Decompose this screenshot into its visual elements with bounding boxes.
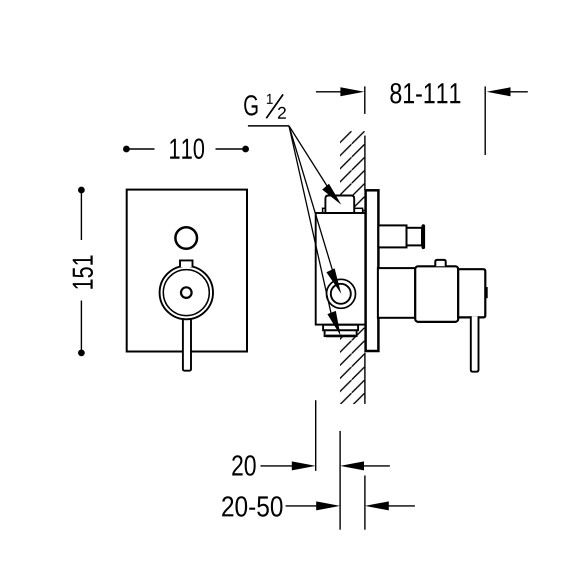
side view: cartridge body (415, 266, 458, 322)
side view: top inlet nut (325, 196, 354, 214)
side view: round side port inner (331, 284, 351, 304)
side view: handle base cap (458, 269, 485, 317)
dimension 20-50 (222, 496, 415, 517)
side view: cartridge top button (435, 260, 445, 266)
side view: upper outlet end cap (421, 226, 425, 247)
side view: neck between plate and cartridge (378, 268, 415, 318)
label G 1/2 (244, 94, 289, 126)
leader arrow to top inlet (322, 184, 341, 205)
extension line at box rear (315, 400, 317, 471)
wall surface line upper (364, 136, 366, 191)
front view: knob outer ring (160, 266, 213, 319)
side view: temperature stop notch (485, 287, 488, 298)
front view: knob top tab (180, 260, 193, 267)
side view: trim plate (366, 190, 379, 351)
front view: diverter button (175, 227, 197, 249)
dimension 151 (73, 187, 93, 357)
side view: round side port outer (327, 279, 356, 308)
wall surface line lower (364, 353, 366, 404)
front view: lever handle (183, 300, 191, 371)
front view: wall plate (127, 190, 247, 352)
front view: knob inner ring (163, 270, 209, 316)
extension line at rough wall surface (339, 431, 341, 530)
front view: knob center dot (181, 287, 192, 298)
leader line to top inlet (289, 126, 330, 191)
side view: embedded valve box (316, 213, 366, 325)
dimension 20 (232, 455, 390, 476)
wall hatched section (340, 131, 365, 404)
leader line to round port (289, 126, 333, 272)
extension line at finished wall surface (364, 476, 366, 530)
label underline (248, 125, 289, 127)
side view: top inlet nut flanges (323, 208, 363, 213)
side view: lever handle (471, 316, 479, 372)
side view: bottom outlet flange (323, 325, 358, 331)
dimension 81-111 (316, 83, 528, 155)
side view: bottom outlet nut (325, 330, 357, 336)
leader arrow to round port (326, 268, 341, 294)
side view: upper outlet nut (407, 228, 423, 246)
dimension 110 (123, 139, 249, 160)
leader line to bottom outlet (289, 126, 331, 313)
side view: upper outlet pipe (378, 225, 406, 247)
leader arrow to bottom outlet (327, 311, 340, 336)
